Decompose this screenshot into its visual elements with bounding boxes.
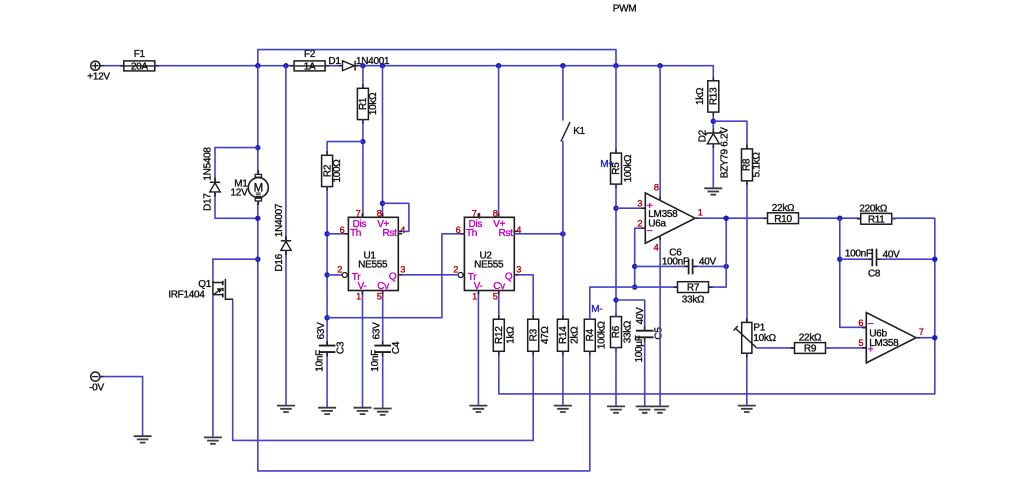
ground below U1 pin1 (354, 408, 372, 414)
resistor R11 220k horizontal (857, 203, 896, 225)
junction U6a pin3 tap (613, 206, 618, 211)
svg-text:1N4007: 1N4007 (274, 203, 285, 237)
U6a power pin numbers 8 and 4 (654, 183, 659, 253)
svg-text:D2: D2 (698, 129, 709, 142)
svg-text:3: 3 (516, 264, 521, 274)
resistor R9 22k horizontal (791, 333, 830, 355)
label D16 (274, 253, 285, 271)
wire main +12V rail F1 to F2 (155, 65, 294, 67)
resistor R10 22k horizontal (764, 203, 803, 225)
wire drain branch to Q1 (213, 258, 258, 260)
wire to U1 pin6 Th (327, 233, 348, 235)
svg-text:5: 5 (858, 338, 863, 348)
svg-text:5: 5 (493, 291, 498, 301)
junction +12V rail / K1 branch (560, 63, 565, 68)
wire U2 pin8 V+ up to rail (498, 66, 500, 218)
svg-text:10nF: 10nF (370, 350, 381, 372)
resistor R8 5.1k vertical (742, 149, 763, 181)
ground below Q1 source (204, 437, 222, 443)
junction +12V rail / U2 pin8 branch (496, 63, 501, 68)
label 12V (231, 188, 249, 199)
wire U1 pin5 Cv to C4 top (382, 291, 384, 345)
motor M1 12V (248, 174, 268, 201)
svg-text:Th: Th (466, 228, 477, 239)
svg-text:4: 4 (654, 242, 659, 252)
capacitor C6 100nF 40V (662, 248, 717, 275)
label D2 (698, 129, 709, 142)
ground below C3 (318, 408, 336, 414)
svg-text:8: 8 (493, 208, 498, 218)
svg-text:12V: 12V (231, 188, 249, 199)
wire node to R8 top (713, 121, 747, 149)
resistor R5 100k vertical (611, 153, 635, 184)
svg-text:1: 1 (472, 291, 477, 301)
svg-text:R6: R6 (611, 325, 622, 338)
diode D1 1N4001 (343, 61, 356, 71)
junction +12V rail / motor branch (255, 63, 260, 68)
svg-text:R7: R7 (687, 283, 700, 294)
fuse F2 1A (290, 49, 329, 73)
junction Rst / K1 / R14 node (560, 231, 565, 236)
label BZY79 6.2V (719, 127, 730, 179)
svg-text:5.1kΩ: 5.1kΩ (752, 152, 763, 178)
ground below C4 (374, 409, 392, 415)
svg-text:2: 2 (337, 264, 342, 274)
wire motor bottom down and across to R4 bottom (258, 202, 590, 471)
svg-text:100µF: 100µF (634, 335, 645, 362)
label P1 (753, 323, 765, 334)
U2 pin names (466, 219, 513, 292)
power terminal -0V (89, 372, 104, 394)
svg-text:IRF1404: IRF1404 (168, 289, 205, 300)
svg-text:1N5408: 1N5408 (203, 147, 214, 181)
svg-text:4: 4 (400, 225, 405, 235)
svg-text:63V: 63V (316, 322, 327, 340)
ground below P1 (738, 406, 756, 412)
svg-text:5: 5 (377, 291, 382, 301)
wire R10 to R11 (799, 217, 861, 219)
wire rail down to motor M1 top (257, 66, 259, 175)
wire -0V to ground (100, 377, 143, 437)
svg-text:BZY79 6.2V: BZY79 6.2V (719, 127, 730, 179)
wire U1 pin8 V+ up to rail (382, 66, 384, 218)
label M1 (234, 179, 248, 190)
wire D17 anode to motor bottom (215, 192, 258, 218)
junction R10/R11/C8 node (837, 216, 842, 221)
junction +12V rail / U6a pin8 branch (657, 63, 662, 68)
svg-text:R13: R13 (709, 87, 720, 105)
junction Tr tap (324, 272, 329, 277)
wire U6a pin2 down to feedback node (635, 228, 646, 287)
ground below D2 (704, 188, 722, 194)
svg-text:2: 2 (453, 264, 458, 274)
junction +12V rail / bypass + R5 branch (613, 63, 618, 68)
wire U2 pin5 Cv to R12 top (498, 291, 500, 320)
ground below R6 (607, 406, 625, 412)
junction C5 tap (613, 297, 618, 302)
potentiometer P1 10k (734, 318, 757, 357)
transistor Q1 IRF1404 N-MOSFET (213, 279, 233, 300)
capacitor C4 10nF 63V (370, 322, 402, 372)
junction +12V rail / R1 branch (360, 63, 365, 68)
svg-text:1kΩ: 1kΩ (505, 326, 516, 344)
wire C3 bottom to ground (326, 353, 328, 408)
net +12V rail wire from supply to fuse F1 (100, 65, 124, 67)
wire R11 right to U6b output column (892, 218, 935, 338)
wire R8 bottom down to P1 top (746, 181, 748, 323)
label K1 (573, 126, 585, 137)
svg-text:Q: Q (505, 272, 513, 283)
U1 pin numbers (337, 208, 405, 301)
svg-text:10kΩ: 10kΩ (368, 92, 379, 115)
junction C8 left (837, 257, 842, 262)
capacitor C8 100nF 40V (845, 249, 900, 280)
svg-text:1A: 1A (304, 62, 316, 73)
wire jog to C5 top (616, 300, 645, 330)
resistor R12 1k (493, 315, 516, 355)
junction drain takeoff (255, 257, 260, 262)
wire R9 to U6b pin5 (826, 347, 867, 349)
wire R3 bottom to Q1 gate (233, 300, 534, 441)
wire R2 bottom down to C3 top (326, 187, 328, 345)
svg-text:47Ω: 47Ω (540, 326, 551, 345)
svg-text:R4: R4 (585, 328, 596, 341)
svg-text:C3: C3 (336, 341, 347, 354)
wire R10/R11 node down to U6b pin6 (840, 218, 867, 327)
svg-text:LM358: LM358 (869, 338, 899, 349)
label 1N4007 (274, 203, 285, 237)
ground below U6a pin4 (651, 406, 669, 412)
label IRF1404 (168, 289, 205, 300)
svg-text:3: 3 (400, 264, 405, 274)
ground below U2 pin1 (469, 406, 487, 412)
ground below D16 (277, 406, 295, 412)
svg-text:R14: R14 (558, 326, 569, 344)
label 10k ohm for P1 (753, 333, 776, 344)
wire C5 bottom to ground (644, 338, 646, 406)
svg-text:F1: F1 (134, 49, 146, 60)
wire main +12V rail D1 cathode to R13 top (355, 66, 713, 81)
wire U2 pin3 Q to R3 top (514, 275, 533, 319)
wire rail to R5 top (615, 66, 617, 153)
wire C4 bottom to ground (382, 353, 384, 409)
junction U6a output / feedback column (724, 216, 729, 221)
wire D16 anode to ground (285, 250, 287, 405)
wire K1/Rst node down to R14 top (562, 234, 564, 319)
svg-text:2kΩ: 2kΩ (570, 326, 581, 344)
svg-text:Th: Th (350, 228, 361, 239)
svg-text:R12: R12 (494, 326, 505, 344)
svg-text:10nF: 10nF (314, 350, 325, 372)
resistor R3 47 ohm (528, 315, 551, 355)
svg-text:M-: M- (591, 304, 602, 315)
svg-text:7: 7 (472, 208, 477, 218)
svg-text:7: 7 (919, 327, 924, 337)
pin stub U2 pin7 Dis (479, 214, 481, 219)
svg-text:100nF: 100nF (845, 249, 872, 260)
svg-text:1kΩ: 1kΩ (695, 87, 706, 105)
svg-text:Rst: Rst (382, 228, 397, 239)
fuse F1 20A (120, 49, 159, 73)
junction C3 / U2 Th runner (324, 315, 329, 320)
wire U2 pin1 V- to ground (477, 291, 479, 406)
U6b pin numbers (858, 318, 923, 348)
label 1N5408 (203, 147, 214, 181)
svg-text:2: 2 (637, 218, 642, 228)
diode D17 1N5408 (210, 178, 220, 197)
svg-text:40V: 40V (635, 307, 646, 325)
IC U1 NE555 timer body (344, 213, 402, 294)
wire U1 pin1 V- to ground (362, 291, 364, 408)
svg-text:C4: C4 (391, 341, 402, 354)
svg-text:33kΩ: 33kΩ (623, 320, 634, 343)
svg-text:-0V: -0V (89, 383, 104, 394)
wire U2 pin4 Rst to K1 column (514, 233, 563, 235)
wire upper bypass rail to R5 column (258, 50, 616, 66)
svg-text:Q: Q (389, 272, 397, 283)
junction R7 left / M- runner (632, 284, 637, 289)
title PWM (613, 4, 637, 15)
svg-text:22kΩ: 22kΩ (772, 203, 795, 214)
op-amp U6a LM358 (641, 193, 699, 243)
resistor R13 1k vertical (695, 81, 720, 112)
svg-text:F2: F2 (304, 49, 316, 60)
resistor R6 33k (611, 313, 634, 352)
svg-text:R10: R10 (774, 214, 792, 225)
svg-text:100kΩ: 100kΩ (596, 321, 607, 349)
resistor R4 100k (584, 315, 607, 355)
svg-text:8: 8 (654, 183, 659, 193)
junction C8 right / output column (932, 257, 937, 262)
svg-text:7: 7 (356, 208, 361, 218)
resistor R14 2k (557, 315, 580, 355)
U6a pin numbers (637, 199, 702, 229)
wire to C6 left plate (635, 265, 689, 267)
U1 pin names (350, 219, 397, 292)
wire output column down to R7 right (709, 218, 727, 287)
svg-text:R3: R3 (528, 328, 539, 341)
switch K1 (561, 66, 570, 234)
wire P1 bottom to ground (746, 353, 748, 405)
svg-text:U6a: U6a (648, 219, 666, 230)
label D1 (328, 56, 341, 67)
wire C8 left (840, 258, 872, 260)
capacitor C5 100uF 40V electrolytic (634, 307, 665, 363)
wire U1 pin4 Rst loop to V+ (383, 203, 409, 231)
svg-text:100Ω: 100Ω (332, 159, 343, 183)
wire R4 top / M- to R7 left (590, 287, 678, 319)
U2 pin 2 inversion bubble (458, 273, 463, 278)
svg-text:M+: M+ (600, 159, 614, 170)
IC U2 NE555 timer body (460, 213, 518, 294)
wire R6 bottom to ground (615, 348, 617, 407)
wire U6a output to R10 (695, 217, 767, 219)
net label M+ (600, 159, 614, 170)
svg-text:33kΩ: 33kΩ (682, 295, 705, 306)
wire R1 bottom to U1 pin7 Dis (362, 120, 364, 218)
wire F2 to D1 anode (325, 65, 343, 67)
svg-text:K1: K1 (573, 126, 585, 137)
svg-text:+12V: +12V (87, 71, 110, 82)
wire R14 bottom to ground (562, 351, 564, 405)
op-amp U6b LM358 (862, 313, 920, 363)
wire C6 right plate to output column (693, 265, 727, 267)
svg-text:10kΩ: 10kΩ (753, 333, 776, 344)
wire rail down to D16 cathode (285, 66, 287, 241)
ground below -0V (134, 436, 152, 442)
junction U1 pin8/pin4 tie (380, 201, 385, 206)
svg-text:6: 6 (340, 225, 345, 235)
svg-text:R11: R11 (868, 214, 885, 225)
wire to D17 cathode (214, 148, 216, 183)
net label M- (591, 304, 602, 315)
ground below C5 (636, 406, 654, 412)
wire U1 pin3 Q to U2 pin2 Tr (398, 274, 458, 276)
svg-text:P1: P1 (753, 323, 765, 334)
wire R5 bottom to R6 top (615, 184, 617, 317)
wire to U1 pin2 Tr bubble (327, 274, 342, 276)
svg-text:22kΩ: 22kΩ (799, 333, 822, 344)
svg-text:R9: R9 (804, 344, 817, 355)
diode D16 1N4007 (281, 236, 291, 255)
svg-text:100kΩ: 100kΩ (623, 154, 634, 182)
wire down to Q1 drain (212, 259, 214, 281)
junction +12V rail / U1 pin8 branch (380, 63, 385, 68)
component lead stubs overlay (100, 66, 920, 377)
svg-text:3: 3 (637, 199, 642, 209)
label Q1 (198, 279, 211, 290)
U2 pin numbers (453, 208, 521, 301)
wire Q1 source to ground (212, 297, 214, 438)
svg-text:1: 1 (698, 208, 703, 218)
svg-text:PWM: PWM (613, 4, 637, 15)
svg-text:63V: 63V (371, 322, 382, 340)
resistor R2 100 ohm vertical (322, 155, 344, 186)
svg-text:220kΩ: 220kΩ (859, 203, 887, 214)
label 1N4001 (356, 56, 390, 67)
wire R13 bottom to D2 cathode (712, 112, 714, 133)
svg-text:D16: D16 (274, 253, 285, 271)
wire C8 right (877, 258, 935, 260)
svg-text:Rst: Rst (498, 228, 513, 239)
svg-text:1: 1 (356, 291, 361, 301)
svg-text:C5: C5 (654, 327, 665, 340)
junction C6 left (632, 264, 637, 269)
wire D17 cathode link to motor top (215, 147, 258, 149)
junction +12V rail / D16 branch (283, 63, 288, 68)
svg-text:8: 8 (377, 208, 382, 218)
wire C3 node runner to U2 pin6 Th (327, 234, 464, 318)
wire U6a pin4 to ground (659, 236, 661, 407)
svg-text:NE555: NE555 (474, 260, 504, 271)
label D17 (203, 193, 214, 211)
wire P1 wiper to R9 (757, 347, 795, 349)
wire rail to R1 top (362, 66, 364, 89)
junction R13 / D2 / R8 node (711, 119, 716, 124)
wire U6b output (916, 337, 935, 339)
junction motor top / D17 (255, 145, 260, 150)
svg-text:C8: C8 (868, 268, 881, 279)
junction motor bottom / D17 anode (255, 216, 260, 221)
junction Th tap (324, 231, 329, 236)
wire D2 anode to ground (712, 144, 714, 189)
wire R12 bottom to U6b output rail (499, 338, 935, 394)
svg-text:20A: 20A (131, 62, 149, 73)
resistor R7 33k horizontal (674, 282, 713, 306)
zener diode D2 BZY79 6.2V (705, 129, 721, 149)
wire U6a pin8 to +12V rail (659, 66, 661, 201)
ground below R14 (554, 406, 572, 412)
capacitor C3 10nF 63V (314, 322, 346, 372)
wire R2 top jog to Dis node (327, 142, 363, 156)
junction R1/R2/U1 Dis node (360, 139, 365, 144)
junction C6 right / output column (724, 264, 729, 269)
U1 pin 2 inversion bubble (342, 273, 347, 278)
svg-text:NE555: NE555 (358, 260, 388, 271)
resistor R1 10k vertical (357, 88, 379, 119)
wire to U6a pin3 (616, 207, 645, 209)
power terminal +12V (87, 61, 110, 82)
svg-text:D17: D17 (203, 193, 214, 211)
junction U6b output node (932, 335, 937, 340)
